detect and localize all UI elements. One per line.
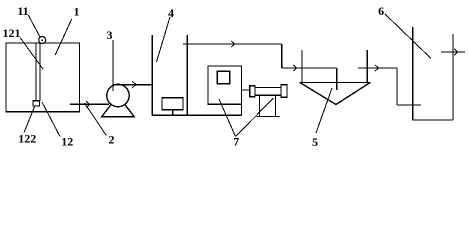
vessel V4 bottom: [152, 114, 241, 116]
wire clarifier outlet: [358, 67, 397, 69]
wire pump outlet to vessel 4: [113, 84, 152, 86]
leader label 6: [385, 14, 431, 59]
arrow on pipe tank1-pump: [86, 101, 90, 107]
svg-text:1: 1: [74, 5, 80, 19]
svg-text:12: 12: [61, 135, 73, 149]
vessel V6 right wall: [452, 34, 454, 120]
leader label 12: [42, 102, 60, 137]
clarifier cone: [300, 83, 370, 105]
arrow on clarifier inlet: [293, 65, 297, 71]
svg-text:121: 121: [3, 26, 21, 40]
clarifier feed downcomer: [336, 68, 338, 90]
blower unit connection tick: [242, 89, 250, 91]
arrow on vessel6 outlet: [454, 49, 458, 55]
arrow on pump outlet: [132, 81, 136, 87]
blower support legs: [260, 95, 276, 116]
inner unit small square: [217, 71, 229, 83]
level gauge top circle 11: [39, 37, 46, 44]
blower left flange: [250, 86, 255, 97]
wire pipe tank1 to pump: [70, 103, 109, 105]
vessel V4 left wall: [151, 35, 153, 115]
inner unit right edge extension to bottom: [241, 104, 243, 115]
leader label 2: [85, 103, 107, 136]
svg-text:7: 7: [233, 134, 239, 148]
wire clarifier inlet: [282, 67, 337, 69]
blower base: [257, 116, 280, 118]
dot inside circle 11: [42, 39, 44, 41]
svg-text:11: 11: [17, 4, 28, 18]
wire corner down: [281, 44, 283, 68]
vessel V6 left wall: [412, 27, 414, 120]
arrow on top pipe: [231, 41, 235, 47]
svg-text:2: 2: [109, 133, 115, 147]
leader label 5: [316, 88, 332, 133]
leader label 7 right: [236, 98, 274, 137]
level gauge tube 12 (double vertical line): [36, 43, 40, 101]
vessel V6 bottom: [413, 119, 453, 121]
aerator box stem: [172, 110, 174, 116]
blower right flange: [281, 85, 287, 97]
clarifier C5 left wall: [301, 50, 303, 83]
blower body: [255, 88, 281, 96]
svg-text:6: 6: [378, 4, 384, 18]
arrow on clarifier outlet: [375, 65, 379, 71]
inner unit tall rect (label 7 left): [208, 66, 242, 104]
clarifier C5 right wall: [366, 50, 368, 83]
vessel V4 partition wall: [186, 35, 188, 115]
tank T1 (adjusting tank): [6, 43, 80, 112]
aerator box on stand (in left chamber): [162, 98, 183, 110]
wire vessel6 outlet: [441, 51, 465, 53]
clarifier rim: [300, 82, 371, 84]
leader label 1: [55, 19, 71, 55]
wire vessel4 top outlet pipe: [183, 43, 282, 45]
svg-text:5: 5: [312, 135, 318, 149]
pump P (label 3) triangle base: [102, 96, 135, 117]
pump P circle: [107, 84, 129, 106]
level gauge bottom square 122: [33, 101, 40, 106]
leader label 121: [20, 38, 43, 70]
leader label 4: [157, 17, 171, 62]
leader label 7 left: [219, 99, 236, 137]
svg-text:3: 3: [107, 28, 113, 42]
leader label 11: [28, 15, 40, 37]
wire into vessel 6: [397, 104, 421, 106]
leader line label 3 / pump riser: [112, 40, 114, 91]
svg-text:4: 4: [168, 6, 174, 20]
leader label 122: [24, 106, 35, 133]
wire down to vessel 6: [396, 68, 398, 105]
svg-text:122: 122: [18, 131, 36, 145]
